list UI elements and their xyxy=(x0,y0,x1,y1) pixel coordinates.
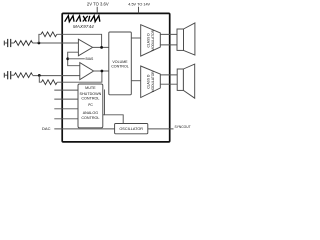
svg-text:CONTROL: CONTROL xyxy=(81,97,99,101)
svg-text:2V TO 3.6V: 2V TO 3.6V xyxy=(87,1,109,6)
svg-text:4.5V TO 14V: 4.5V TO 14V xyxy=(128,2,150,6)
wire SYNCOUT xyxy=(148,128,174,130)
svg-text:ANALOG: ANALOG xyxy=(83,111,99,115)
wire input ch1 to op-amp xyxy=(33,42,79,44)
wire modulator1 out+ xyxy=(160,33,177,35)
wire volume to modulator 1 xyxy=(131,37,140,39)
svg-text:SYNCOUT: SYNCOUT xyxy=(175,125,191,129)
resistor R2 feedback ch1 xyxy=(41,32,57,37)
svg-text:I²C: I²C xyxy=(88,103,93,107)
wire xyxy=(4,74,8,76)
wire bias stub xyxy=(68,58,85,60)
wire ANALOG CONTROL input xyxy=(54,118,78,120)
wire feedback ch2 to output node xyxy=(57,71,102,82)
svg-text:BIAS: BIAS xyxy=(86,57,94,61)
svg-text:CONTROL: CONTROL xyxy=(81,116,99,120)
wire SHUTDOWN CONTROL input xyxy=(54,98,78,100)
op-amp U1B xyxy=(80,63,94,80)
node input source tick ch1 xyxy=(3,41,5,46)
speaker LS1 xyxy=(177,23,195,55)
wire modulator2 out+ xyxy=(160,74,177,76)
resistor R3 xyxy=(14,73,33,78)
MAXIM logo xyxy=(65,16,101,22)
svg-text:CLASS D: CLASS D xyxy=(147,74,151,89)
node junction ch1 xyxy=(38,42,41,45)
chip U1 MAX9744 outline xyxy=(62,13,170,142)
wire feedback ch1 to output node xyxy=(57,34,102,47)
wire xyxy=(11,42,14,44)
svg-text:CLASS D: CLASS D xyxy=(147,33,151,48)
wire I2C input xyxy=(54,108,78,110)
node input source tick ch2 xyxy=(3,73,5,78)
block CLASS D MODULATOR 2 xyxy=(141,66,161,98)
node op-amp2 output junction xyxy=(101,70,104,73)
wire feedback up ch1 xyxy=(39,34,41,43)
wire MUTE input xyxy=(54,89,78,91)
wire xyxy=(4,42,8,44)
svg-text:MODULATOR: MODULATOR xyxy=(151,71,155,92)
svg-text:OSCILLATOR: OSCILLATOR xyxy=(119,127,143,131)
resistor R1 xyxy=(14,41,33,46)
wire xyxy=(11,74,14,76)
capacitor C2 xyxy=(8,71,11,79)
op-amp U1A xyxy=(78,39,92,56)
wire supply tick right xyxy=(138,7,140,14)
wire DAC input to oscillator xyxy=(54,128,114,130)
speaker LS2 xyxy=(177,64,195,98)
svg-text:MUTE: MUTE xyxy=(85,86,96,90)
wire modulator2 out- xyxy=(160,83,177,85)
svg-text:VOLUME: VOLUME xyxy=(112,60,128,64)
block control inputs MUTE/SHUTDOWN/I2C/ANALOG xyxy=(78,84,103,128)
wire op-amp1 output xyxy=(93,46,109,48)
node op-amp1 output junction xyxy=(100,46,103,49)
wire supply tick left xyxy=(96,7,98,14)
node bias junction xyxy=(66,57,69,60)
resistor R4 feedback ch2 xyxy=(41,80,57,85)
capacitor C1 xyxy=(8,39,11,47)
svg-text:SHUTDOWN: SHUTDOWN xyxy=(80,92,102,96)
node junction ch2 xyxy=(38,74,41,77)
wire feedback down ch2 xyxy=(39,75,41,82)
svg-text:MODULATOR: MODULATOR xyxy=(151,29,155,50)
wire op-amp2 output xyxy=(94,70,109,72)
svg-text:MAX9744: MAX9744 xyxy=(73,24,94,29)
wire volume to modulator 2 xyxy=(131,80,140,82)
wire control box to oscillator xyxy=(105,90,124,125)
block VOLUME CONTROL xyxy=(109,32,132,95)
wire input ch2 to op-amp xyxy=(33,75,80,77)
block OSCILLATOR xyxy=(115,124,148,134)
wire bias tee xyxy=(68,52,80,65)
block CLASS D MODULATOR 1 xyxy=(141,25,161,56)
svg-text:CONTROL: CONTROL xyxy=(111,65,129,69)
svg-text:DAC: DAC xyxy=(42,126,51,131)
wire control box right stub xyxy=(103,114,105,116)
wire modulator1 out- xyxy=(160,44,177,46)
